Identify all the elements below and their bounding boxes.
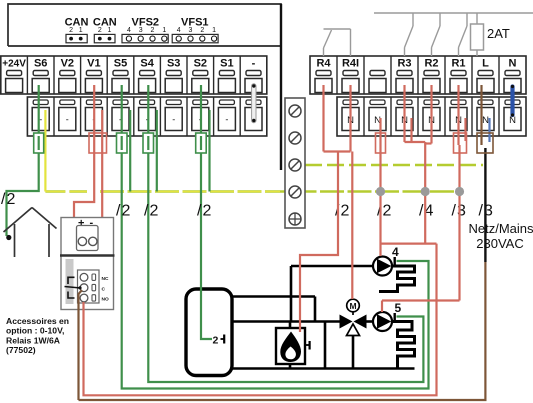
svg-text:option : 0-10V,: option : 0-10V,: [6, 326, 64, 336]
svg-text:-: -: [252, 58, 256, 70]
svg-text:CAN: CAN: [93, 17, 117, 29]
svg-text:2: 2: [69, 27, 73, 34]
terminal strip: relay outputs top row (R4 R4I R3 R2 R1 L N): [310, 56, 526, 94]
svg-text:1: 1: [79, 27, 83, 34]
svg-text:(77502): (77502): [6, 345, 36, 355]
svg-text:Relais 1W/6A: Relais 1W/6A: [6, 335, 60, 345]
svg-text:VFS2: VFS2: [132, 17, 160, 29]
connector VFS2: [122, 17, 168, 43]
svg-text:S6: S6: [34, 58, 47, 70]
connector CAN: [65, 17, 89, 43]
svg-text:R4: R4: [316, 58, 331, 70]
controller housing outline: [8, 4, 281, 170]
svg-text:L: L: [482, 58, 489, 70]
svg-text:1: 1: [212, 27, 216, 34]
svg-text:-: -: [172, 115, 175, 125]
sensor tick after pump 4: [394, 257, 396, 266]
ferrule pump4 cable: [376, 133, 386, 153]
relay contacts R3 R2 R1 with L bus: [374, 13, 533, 56]
terminal strip: inputs top row (+24V S6 V2 V1 S5 S4 S3 S2 S1 -): [1, 56, 267, 94]
wire: S2 ground green stub: [208, 110, 210, 192]
svg-text:/2: /2: [116, 203, 131, 220]
junction dot pump4 cable PE: [376, 187, 385, 196]
wire: sensor S6 (outside sensor) green: [7, 85, 39, 236]
tank sensor 2 mark: [213, 335, 225, 347]
ferrule V1: [89, 133, 107, 153]
earth busbar with screw terminals: [285, 98, 305, 228]
svg-text:NC: NC: [102, 276, 109, 282]
mixing valve 3-way with motor M: [340, 299, 367, 335]
svg-text:S1: S1: [220, 58, 233, 70]
svg-text:M: M: [349, 301, 356, 311]
svg-text:5: 5: [395, 301, 402, 315]
storage tank: [186, 289, 232, 376]
wire: S6 ground (yellow) to common bus: [44, 110, 46, 192]
wire: pump5 cable /3 red R1+N: [382, 85, 466, 312]
svg-text:/2: /2: [197, 203, 212, 220]
wire: mains cable L brown + N blue: [79, 85, 490, 400]
svg-text:4: 4: [127, 27, 131, 34]
terminal strip: relay outputs lower row (N terminals): [337, 97, 526, 136]
wire: PE dashed line from earth busbar y=165: [305, 164, 483, 167]
svg-text:3: 3: [139, 27, 143, 34]
accessory module 0-10V / relay box: [60, 217, 115, 310]
svg-text:-: -: [225, 115, 228, 125]
svg-text:1: 1: [108, 27, 112, 34]
outdoor sensor (house symbol): [4, 208, 57, 258]
connector CAN: [93, 17, 117, 43]
svg-text:R2: R2: [424, 58, 438, 70]
relay contact symbol inside module: [65, 277, 82, 298]
wire: sensor S2 green to storage tank sensor 2: [201, 85, 212, 339]
pump 5: [373, 312, 392, 331]
junction dot mixer cable PE: [421, 187, 430, 196]
svg-text:S3: S3: [167, 58, 180, 70]
svg-text:Accessoires en: Accessoires en: [6, 316, 69, 326]
wire: S5 ground green stub: [129, 110, 131, 192]
svg-text:S5: S5: [114, 58, 127, 70]
ferrule S6: [34, 133, 44, 153]
svg-text:4: 4: [177, 27, 181, 34]
svg-text:N: N: [482, 115, 489, 126]
svg-text:/2: /2: [144, 203, 159, 220]
svg-text:N: N: [509, 58, 517, 70]
wire: V1 output red pair to 0-10V module: [74, 85, 102, 241]
wire: S4 ground green stub: [156, 110, 158, 192]
svg-text:1: 1: [162, 27, 166, 34]
svg-text:3: 3: [189, 27, 193, 34]
wire: R4/R4I pair red: [300, 85, 352, 332]
node: outdoor sensor connection dot: [6, 235, 11, 240]
connector VFS1: [172, 17, 218, 43]
svg-text:-: -: [66, 115, 69, 125]
svg-text:R3: R3: [397, 58, 411, 70]
svg-text:V1: V1: [87, 58, 100, 70]
svg-text:Netz/Mains: Netz/Mains: [468, 221, 533, 236]
svg-text:C: C: [102, 286, 106, 292]
svg-text:S2: S2: [194, 58, 207, 70]
heating coil 5: [392, 322, 415, 369]
svg-text:VFS1: VFS1: [181, 17, 209, 29]
svg-text:4: 4: [392, 245, 399, 259]
jumper wire (gray) on "-" input terminal: [252, 84, 255, 122]
wire: sensor S4 green to sensor 5: [148, 85, 423, 382]
ferrule S5: [117, 133, 128, 153]
svg-text:2: 2: [200, 27, 204, 34]
svg-text:/2: /2: [1, 191, 16, 208]
wire: mixer cable /4 red R3+N+R2: [84, 85, 437, 395]
svg-text:/2: /2: [377, 203, 392, 220]
svg-text:2: 2: [151, 27, 155, 34]
wire: sensor S5 green to sensor 4: [122, 85, 429, 389]
relay section of module: [66, 259, 109, 304]
ferrule pump5 cable: [454, 133, 467, 153]
relay contact R4/R4I (potential-free): [324, 29, 351, 56]
wire: sensor common yellow-green bus y=191.5: [45, 190, 459, 193]
sensor tick after pump 5: [394, 313, 396, 321]
svg-text:/4: /4: [419, 203, 434, 220]
pipe: tank to pump4 line: [232, 266, 415, 369]
boiler with flame: [276, 328, 310, 364]
fuse 2AT: [471, 24, 510, 50]
svg-text:+24V: +24V: [2, 59, 26, 70]
svg-text:NO: NO: [102, 297, 109, 303]
jumper wire (blue) N to N: [511, 85, 514, 117]
svg-text:R4I: R4I: [342, 58, 359, 70]
heating coil 4: [379, 266, 415, 292]
terminal strip: inputs lower row (sensor ground): [27, 97, 266, 136]
svg-text:R1: R1: [451, 58, 465, 70]
svg-text:2: 2: [98, 27, 102, 34]
svg-text:2AT: 2AT: [487, 26, 510, 41]
ferrule S2: [196, 133, 207, 153]
svg-text:2: 2: [213, 335, 219, 347]
svg-text:S4: S4: [140, 58, 154, 70]
wire: pump4 cable red from N: [379, 118, 381, 256]
pump 4: [373, 257, 392, 276]
svg-text:230VAC: 230VAC: [476, 236, 523, 251]
ferrule mains cable: [477, 133, 493, 153]
junction dot pump5 cable PE: [455, 187, 464, 196]
svg-text:V2: V2: [61, 58, 74, 70]
ferrule S4: [143, 133, 154, 153]
